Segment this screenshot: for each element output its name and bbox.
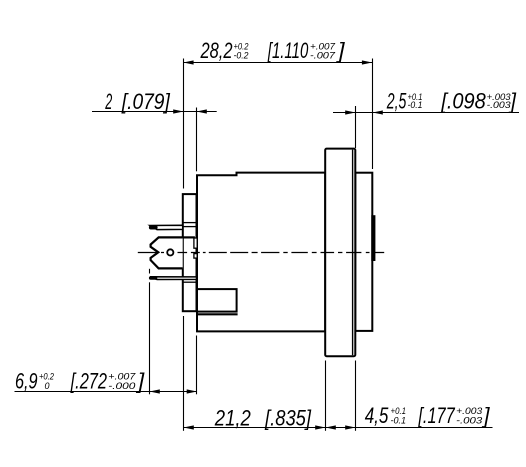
svg-text:+0.1: +0.1	[391, 406, 407, 416]
svg-text:+.007: +.007	[108, 372, 136, 382]
svg-text:-.007: -.007	[310, 51, 336, 61]
svg-text:28,2: 28,2	[200, 38, 233, 63]
svg-text:]: ]	[136, 369, 145, 394]
svg-text:[.098: [.098	[440, 89, 486, 114]
svg-text:[.079]: [.079]	[121, 89, 170, 114]
svg-text:-.003: -.003	[456, 416, 482, 426]
svg-text:]: ]	[336, 38, 345, 63]
svg-text:4,5: 4,5	[365, 403, 389, 428]
svg-text:-.000: -.000	[108, 381, 135, 391]
svg-text:+.003: +.003	[456, 406, 482, 416]
svg-text:[1.110: [1.110	[267, 38, 308, 63]
svg-text:2: 2	[105, 89, 113, 114]
svg-text:-0.1: -0.1	[391, 416, 407, 426]
svg-text:-0.2: -0.2	[234, 51, 249, 61]
svg-text:-.003: -.003	[487, 100, 511, 110]
svg-text:[.177: [.177	[418, 403, 456, 428]
svg-text:+0.2: +0.2	[39, 372, 54, 382]
svg-text:[.272: [.272	[70, 369, 107, 394]
svg-text:2,5: 2,5	[386, 89, 407, 114]
svg-text:]: ]	[508, 89, 516, 114]
svg-text:6,9: 6,9	[15, 369, 38, 394]
svg-text:]: ]	[482, 403, 491, 428]
svg-text:-0.1: -0.1	[408, 100, 423, 110]
svg-text:0: 0	[45, 381, 50, 391]
svg-text:[.835]: [.835]	[264, 406, 311, 431]
svg-text:21,2: 21,2	[214, 406, 251, 431]
